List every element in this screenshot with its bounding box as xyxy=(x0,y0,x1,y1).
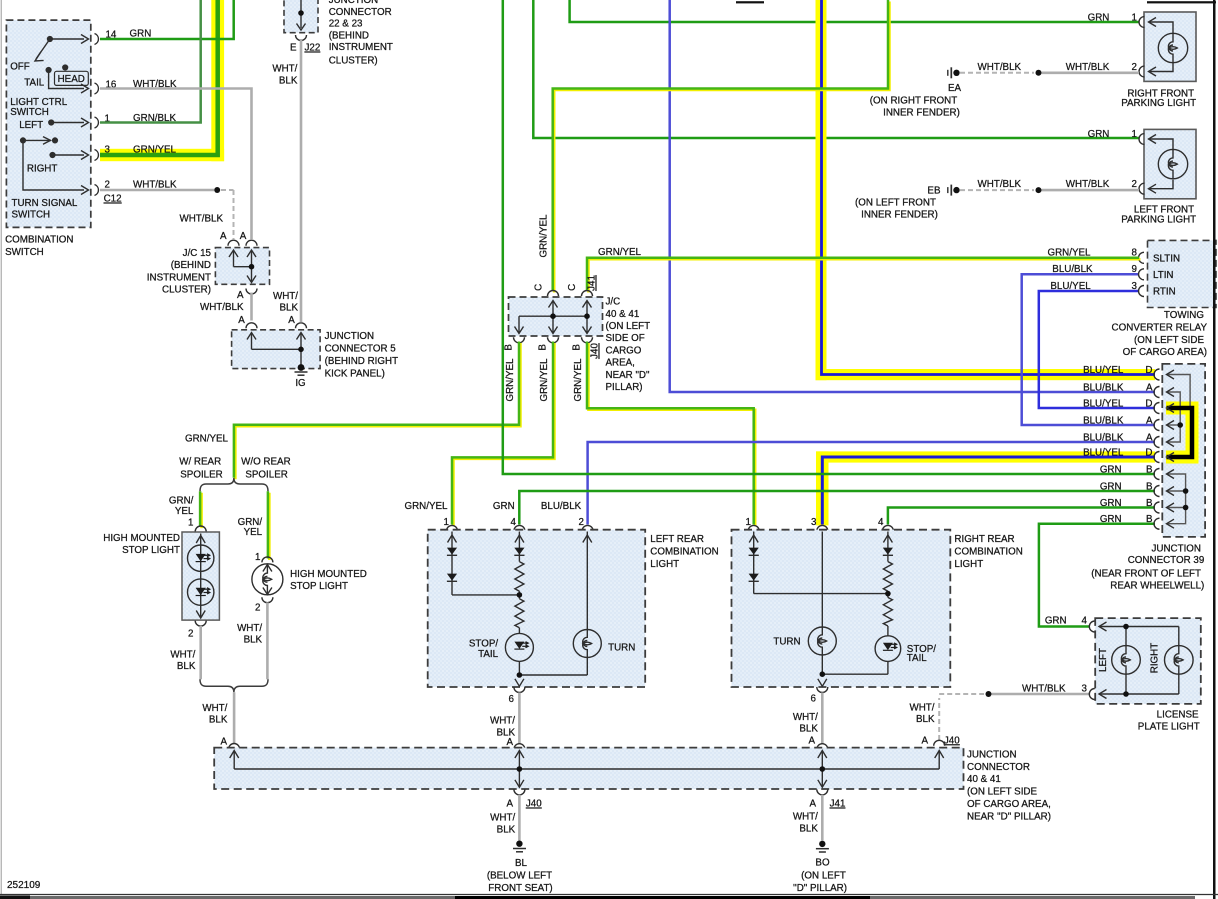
left stop light labels xyxy=(103,533,193,640)
svg-text:OF CARGO AREA): OF CARGO AREA) xyxy=(1123,347,1207,358)
svg-text:WHT/: WHT/ xyxy=(272,64,297,75)
svg-text:2: 2 xyxy=(1132,179,1137,190)
brace spoiler split xyxy=(200,478,268,491)
svg-text:JUNCTION: JUNCTION xyxy=(325,331,375,342)
JC39 bus A xyxy=(1167,392,1180,442)
wire WHT/BLK left stop light down xyxy=(199,626,202,680)
svg-text:A: A xyxy=(1146,433,1153,444)
svg-text:6: 6 xyxy=(509,694,515,705)
svg-text:GRN/YEL: GRN/YEL xyxy=(573,358,584,402)
svg-text:''D" PILLAR): ''D" PILLAR) xyxy=(793,883,847,894)
svg-text:LTIN: LTIN xyxy=(1153,270,1174,281)
svg-text:EA: EA xyxy=(948,83,962,94)
pin numbers and wire labels xyxy=(104,29,177,205)
wire WHT/BLK J/C15 to JC5 xyxy=(250,293,253,321)
svg-text:REAR WHEELWELL): REAR WHEELWELL) xyxy=(1110,581,1204,592)
J/C 40 & 41 pin letters xyxy=(504,275,601,359)
wire GRN from top to right front parking light xyxy=(570,0,1139,22)
svg-text:BLU/BLK: BLU/BLK xyxy=(1083,383,1124,394)
junction connector 39 xyxy=(1162,364,1205,537)
svg-text:RTIN: RTIN xyxy=(1153,286,1176,297)
right front parking light labels xyxy=(1066,12,1196,109)
wire GRN/YEL J40 pin B mid to left rear light pin 1 xyxy=(453,343,554,526)
svg-text:J/C: J/C xyxy=(606,297,621,308)
svg-text:A: A xyxy=(238,315,245,326)
yellow highlight BLU/YEL JC39 row6 to right rear pin 3 xyxy=(816,451,1155,462)
svg-text:A: A xyxy=(1146,383,1153,394)
svg-text:2: 2 xyxy=(255,603,260,614)
svg-text:OFF: OFF xyxy=(10,62,30,73)
turn signal switch contacts xyxy=(21,120,84,190)
svg-text:BLK: BLK xyxy=(916,714,935,725)
svg-text:WHT/BLK: WHT/BLK xyxy=(978,62,1022,73)
ground BL xyxy=(487,841,553,895)
ground EB xyxy=(855,185,960,221)
svg-text:WHT/: WHT/ xyxy=(273,291,298,302)
svg-text:B: B xyxy=(1146,482,1153,493)
svg-text:D: D xyxy=(1145,448,1152,459)
svg-text:CLUSTER): CLUSTER) xyxy=(329,56,378,67)
svg-text:3: 3 xyxy=(1132,281,1138,292)
ground IG xyxy=(295,364,308,389)
svg-text:A: A xyxy=(506,737,513,748)
svg-text:A: A xyxy=(809,799,816,810)
left rear pin 6 wire and labels xyxy=(490,693,525,750)
svg-text:GRN: GRN xyxy=(1100,498,1122,509)
svg-text:GRN/YEL: GRN/YEL xyxy=(539,214,550,258)
svg-text:JUNCTION: JUNCTION xyxy=(329,0,379,6)
wire GRN pin 14 xyxy=(100,0,234,39)
right rear light interior labels xyxy=(773,636,936,664)
svg-text:CONNECTOR: CONNECTOR xyxy=(329,7,392,18)
JC39 highlighted bus yellow band xyxy=(1166,408,1192,457)
page border right xyxy=(1213,0,1216,899)
svg-text:GRN: GRN xyxy=(493,501,515,512)
svg-text:BLK: BLK xyxy=(209,715,228,726)
svg-text:AREA,: AREA, xyxy=(606,358,635,369)
svg-text:BLU/YEL: BLU/YEL xyxy=(1083,448,1124,459)
bottom JC caption xyxy=(967,750,1051,823)
svg-text:GRN: GRN xyxy=(1100,514,1122,525)
yellow highlight GRN/YEL pin 3 xyxy=(100,0,224,161)
right front parking light xyxy=(1139,12,1196,81)
svg-text:B: B xyxy=(504,344,515,351)
svg-text:GRN: GRN xyxy=(1045,615,1067,626)
svg-text:W/ REAR: W/ REAR xyxy=(179,456,221,467)
wire BLU/YEL highlighted core to row1 xyxy=(822,0,1156,375)
label WHT/ BLK under J22 xyxy=(272,64,297,87)
svg-text:BLU/BLK: BLU/BLK xyxy=(1083,416,1124,427)
svg-text:BLU/YEL: BLU/YEL xyxy=(1083,365,1124,376)
junction connector 40 & 41 bottom xyxy=(214,748,963,795)
J/C 15 pin labels A A xyxy=(220,231,257,246)
svg-text:WHT/: WHT/ xyxy=(793,811,818,822)
brace stop light merge xyxy=(200,679,268,692)
svg-text:WHT/: WHT/ xyxy=(490,715,515,726)
svg-text:SWITCH: SWITCH xyxy=(5,247,44,258)
svg-text:LIGHT: LIGHT xyxy=(650,559,679,570)
svg-text:GRN/YEL: GRN/YEL xyxy=(539,358,550,402)
svg-text:BLK: BLK xyxy=(244,634,263,645)
bottom bar segments xyxy=(0,896,30,899)
JC39 pin arcs xyxy=(1154,369,1160,529)
svg-text:CONVERTER RELAY: CONVERTER RELAY xyxy=(1112,323,1208,334)
wire GRN right rear pin4 to JC39 row9 xyxy=(888,508,1155,525)
svg-text:GRN/YEL: GRN/YEL xyxy=(505,358,516,402)
svg-text:9: 9 xyxy=(1132,264,1137,275)
combination switch pin arcs xyxy=(95,34,99,196)
svg-text:GRN/YEL: GRN/YEL xyxy=(404,501,448,512)
combination switch box xyxy=(6,20,90,227)
JC39 pin arrows xyxy=(1167,370,1175,528)
svg-text:GRN: GRN xyxy=(1100,465,1122,476)
svg-text:BLU/BLK: BLU/BLK xyxy=(541,501,582,512)
yellow highlight BLU/YEL from top to JC39 row1 xyxy=(816,0,827,380)
svg-text:B: B xyxy=(538,344,549,351)
JC39 pin letters xyxy=(1145,365,1153,525)
svg-text:CONNECTOR: CONNECTOR xyxy=(967,762,1030,773)
wire WHT/BLK pin 16 xyxy=(100,89,252,240)
junction connector 5 xyxy=(232,330,321,369)
right rear pin 6 wire and labels xyxy=(793,693,828,750)
svg-text:1: 1 xyxy=(1132,12,1137,23)
svg-text:HIGH MOUNTED: HIGH MOUNTED xyxy=(290,569,367,580)
svg-text:GRN/YEL: GRN/YEL xyxy=(185,434,229,445)
wire WHT/BLK dashed license plate to J40 xyxy=(909,691,1090,746)
svg-text:TURN SIGNAL: TURN SIGNAL xyxy=(12,198,78,209)
JC39 bus B xyxy=(1167,474,1186,524)
svg-text:BLU/YEL: BLU/YEL xyxy=(1083,399,1124,410)
svg-text:WHT/: WHT/ xyxy=(237,623,262,634)
svg-text:TOWING: TOWING xyxy=(1164,310,1204,321)
high mounted stop light w/o rear spoiler xyxy=(252,557,283,603)
svg-text:LIGHT: LIGHT xyxy=(954,559,983,570)
JC39 highlighted black bus D xyxy=(1167,408,1193,457)
wire GRN/YEL to left stop light xyxy=(200,493,203,528)
svg-text:LICENSE: LICENSE xyxy=(1157,709,1199,720)
svg-text:WHT/: WHT/ xyxy=(202,703,227,714)
svg-text:GRN: GRN xyxy=(1088,129,1110,140)
svg-text:TAIL: TAIL xyxy=(478,649,499,660)
svg-text:D: D xyxy=(1145,399,1152,410)
svg-text:CONNECTOR 5: CONNECTOR 5 xyxy=(325,344,397,355)
svg-text:LEFT: LEFT xyxy=(19,120,43,131)
svg-text:C12: C12 xyxy=(104,194,122,205)
svg-text:J41: J41 xyxy=(587,275,598,291)
svg-text:CARGO: CARGO xyxy=(606,346,642,357)
wire GRN/YEL J41 pin C right to relay SLTIN xyxy=(588,259,1140,292)
GRN/YEL rotated labels below J/C 40 & 41 xyxy=(505,358,584,402)
svg-text:BLU/BLK: BLU/BLK xyxy=(1052,264,1093,275)
wire GRN left rear pin4 to JC39 row8 xyxy=(519,491,1155,525)
svg-text:A: A xyxy=(220,231,227,242)
wire WHT/BLK merged to bottom JC xyxy=(233,692,236,744)
svg-text:4: 4 xyxy=(878,517,884,528)
svg-text:(ON LEFT: (ON LEFT xyxy=(606,321,651,332)
right stop light labels xyxy=(255,569,367,614)
svg-text:WHT/BLK: WHT/BLK xyxy=(200,302,244,313)
svg-text:(ON LEFT FRONT: (ON LEFT FRONT xyxy=(855,198,936,209)
svg-text:J40: J40 xyxy=(526,799,542,810)
junction connector 22 & 23 caption xyxy=(329,0,393,67)
junction connector J/C 40 & 41 top xyxy=(509,291,603,343)
svg-text:WHT/BLK: WHT/BLK xyxy=(1022,683,1066,694)
JC39 bus D thin xyxy=(1167,375,1192,409)
svg-text:EB: EB xyxy=(927,185,941,196)
svg-text:COMBINATION: COMBINATION xyxy=(954,546,1022,557)
wire WHT/BLK EB to left front parking xyxy=(960,179,1139,193)
svg-text:(ON RIGHT FRONT: (ON RIGHT FRONT xyxy=(870,96,957,107)
svg-text:B: B xyxy=(572,344,583,351)
svg-text:J40: J40 xyxy=(590,343,601,359)
svg-text:LEFT: LEFT xyxy=(1098,648,1109,672)
wire WHT/BLK EA to right front parking xyxy=(960,62,1139,76)
license plate light pin labels xyxy=(1022,615,1088,694)
JC39 caption xyxy=(1091,544,1204,592)
right rear combination light pin labels xyxy=(746,517,885,528)
svg-text:A: A xyxy=(220,737,227,748)
svg-text:WHT/BLK: WHT/BLK xyxy=(978,179,1022,190)
high mounted stop light w/ rear spoiler xyxy=(182,526,219,626)
svg-text:B: B xyxy=(1146,465,1153,476)
wire GRN/YEL top loop to J41 pin C xyxy=(554,1,889,292)
svg-text:3: 3 xyxy=(1082,683,1088,694)
svg-text:YEL: YEL xyxy=(244,527,263,538)
svg-text:3: 3 xyxy=(811,517,817,528)
left rear light caption xyxy=(650,534,718,570)
ground EA xyxy=(870,67,962,118)
page border left xyxy=(0,0,2,894)
svg-text:TURN: TURN xyxy=(608,642,635,653)
svg-text:(NEAR FRONT OF LEFT: (NEAR FRONT OF LEFT xyxy=(1091,569,1201,580)
wire WHT/BLK pin 2 xyxy=(100,187,234,239)
light ctrl switch contacts xyxy=(35,37,88,89)
svg-text:WHT/BLK: WHT/BLK xyxy=(1066,62,1110,73)
svg-text:40 & 41: 40 & 41 xyxy=(967,774,1001,785)
svg-text:HEAD: HEAD xyxy=(58,74,85,85)
svg-text:WHT/: WHT/ xyxy=(793,712,818,723)
svg-text:(BEHIND RIGHT: (BEHIND RIGHT xyxy=(325,356,398,367)
svg-text:TURN: TURN xyxy=(773,636,800,647)
bottom JC pin labels below xyxy=(506,799,845,810)
svg-text:6: 6 xyxy=(811,693,817,704)
svg-text:C: C xyxy=(534,284,545,291)
wire WHT/BLK J22-E to JC5 xyxy=(300,39,303,323)
J/C 40 & 41 caption xyxy=(606,297,651,394)
svg-text:A: A xyxy=(1146,416,1153,427)
combination switch pin arrowheads xyxy=(81,35,89,195)
svg-text:NEAR "D": NEAR "D" xyxy=(606,370,650,381)
svg-text:B: B xyxy=(1146,514,1153,525)
svg-text:D: D xyxy=(1145,365,1152,376)
svg-text:J22: J22 xyxy=(305,43,321,54)
wire WHT/BLK J41 to BO ground xyxy=(793,795,822,841)
svg-text:(ON LEFT SIDE: (ON LEFT SIDE xyxy=(967,787,1038,798)
svg-text:WHT/: WHT/ xyxy=(490,813,515,824)
svg-text:WHT/: WHT/ xyxy=(170,650,195,661)
svg-text:B: B xyxy=(1146,498,1153,509)
svg-text:CONNECTOR 39: CONNECTOR 39 xyxy=(1128,555,1205,566)
svg-text:SLTIN: SLTIN xyxy=(1153,253,1180,264)
ground BO xyxy=(793,841,847,895)
svg-text:TAIL: TAIL xyxy=(907,653,928,664)
svg-text:SIDE OF: SIDE OF xyxy=(606,333,645,344)
license plate light caption xyxy=(1138,709,1200,732)
svg-text:BO: BO xyxy=(815,857,830,868)
top edge black segment right xyxy=(1147,1,1216,3)
svg-text:A: A xyxy=(240,231,247,242)
combination switch texts xyxy=(5,62,85,258)
svg-text:(ON LEFT: (ON LEFT xyxy=(801,870,846,881)
svg-text:PLATE LIGHT: PLATE LIGHT xyxy=(1138,721,1200,732)
left rear combination light pin labels xyxy=(404,501,584,528)
wire WHT/BLK right stop light down xyxy=(266,602,269,679)
svg-text:LEFT REAR: LEFT REAR xyxy=(650,534,704,545)
svg-text:A: A xyxy=(288,315,295,326)
svg-text:A: A xyxy=(506,799,513,810)
svg-text:1: 1 xyxy=(188,518,193,529)
svg-text:40 & 41: 40 & 41 xyxy=(606,309,640,320)
wire BLU/BLK relay LTIN to JC39 row4 xyxy=(1022,274,1155,425)
svg-text:3: 3 xyxy=(105,145,111,156)
wire GRN from top to JC39 row7 xyxy=(503,0,1155,474)
svg-text:4: 4 xyxy=(1082,615,1088,626)
svg-text:SPOILER: SPOILER xyxy=(245,470,287,481)
left front parking light xyxy=(1139,129,1196,198)
wire GRN JC39 row10 to license plate pin4 xyxy=(1039,524,1155,627)
wire WHT/BLK J40 to BL ground xyxy=(490,795,519,841)
left rear light interior labels xyxy=(469,639,635,660)
right rear combination light xyxy=(732,525,951,692)
svg-text:A: A xyxy=(808,735,815,746)
svg-text:BLK: BLK xyxy=(497,825,516,836)
svg-text:FRONT SEAT): FRONT SEAT) xyxy=(488,883,552,894)
svg-text:BLK: BLK xyxy=(279,76,298,87)
svg-text:2: 2 xyxy=(579,517,584,528)
bottom border line xyxy=(0,894,1218,896)
svg-text:22 & 23: 22 & 23 xyxy=(329,19,363,30)
svg-text:TAIL: TAIL xyxy=(24,78,45,89)
svg-text:RIGHT: RIGHT xyxy=(1150,643,1161,673)
svg-text:BLU/BLK: BLU/BLK xyxy=(1083,433,1124,444)
svg-text:2: 2 xyxy=(188,629,193,640)
svg-text:SWITCH: SWITCH xyxy=(10,107,49,118)
svg-text:PARKING LIGHT: PARKING LIGHT xyxy=(1121,214,1196,225)
svg-text:BLK: BLK xyxy=(799,723,818,734)
wire GRN/YEL to right stop light xyxy=(268,493,271,560)
svg-text:INNER FENDER): INNER FENDER) xyxy=(883,108,960,119)
svg-text:SPOILER: SPOILER xyxy=(180,470,222,481)
junction connector 22 & 23 box xyxy=(284,0,318,41)
svg-text:COMBINATION: COMBINATION xyxy=(650,546,718,557)
wire BLU/YEL highlighted row6 core xyxy=(822,457,1155,525)
towing converter relay xyxy=(1139,240,1217,307)
svg-text:GRN/YEL: GRN/YEL xyxy=(133,145,177,156)
svg-text:JUNCTION: JUNCTION xyxy=(1151,544,1201,555)
labels E J22 xyxy=(290,43,320,54)
svg-text:(BEHIND: (BEHIND xyxy=(329,31,369,42)
labels W/ REAR SPOILER, W/O REAR SPOILER xyxy=(179,456,290,480)
svg-text:(BEHIND: (BEHIND xyxy=(171,260,211,271)
svg-text:1: 1 xyxy=(255,552,260,563)
svg-text:1: 1 xyxy=(1132,129,1137,140)
svg-text:IG: IG xyxy=(295,378,305,389)
junction connector 5 caption xyxy=(325,331,398,379)
wire GRN/YEL J40 pin B left to spoiler split xyxy=(235,343,520,479)
svg-text:J/C 15: J/C 15 xyxy=(183,248,212,259)
svg-text:INSTRUMENT: INSTRUMENT xyxy=(329,42,393,53)
svg-text:HIGH MOUNTED: HIGH MOUNTED xyxy=(103,533,180,544)
svg-text:GRN: GRN xyxy=(1100,482,1122,493)
svg-text:COMBINATION: COMBINATION xyxy=(5,234,73,245)
svg-text:BLU/YEL: BLU/YEL xyxy=(1050,281,1091,292)
svg-text:RIGHT REAR: RIGHT REAR xyxy=(954,534,1014,545)
stop light branch labels xyxy=(169,496,263,564)
junction connector J/C 15 xyxy=(215,248,269,294)
svg-text:2: 2 xyxy=(1132,62,1137,73)
stop light WHT/BLK labels xyxy=(170,623,262,672)
relay caption xyxy=(1112,310,1208,358)
svg-text:STOP LIGHT: STOP LIGHT xyxy=(122,545,180,556)
svg-text:SWITCH: SWITCH xyxy=(12,210,51,221)
svg-text:BLK: BLK xyxy=(799,823,818,834)
svg-text:A: A xyxy=(237,290,244,301)
svg-text:WHT/BLK: WHT/BLK xyxy=(1066,179,1110,190)
top edge black segment center xyxy=(736,1,764,3)
svg-text:GRN/YEL: GRN/YEL xyxy=(598,247,642,258)
license plate light xyxy=(1089,618,1200,704)
svg-text:BL: BL xyxy=(515,858,528,869)
svg-text:OF CARGO AREA,: OF CARGO AREA, xyxy=(967,799,1051,810)
wire BLU/BLK left rear pin2 to JC39 row5 xyxy=(588,442,1155,525)
wire GRN/YEL pin 3 core xyxy=(100,0,218,155)
svg-text:NEAR ''D" PILLAR): NEAR ''D" PILLAR) xyxy=(967,812,1051,823)
svg-text:E: E xyxy=(290,43,297,54)
svg-text:CLUSTER): CLUSTER) xyxy=(162,285,211,296)
left front parking light labels xyxy=(1066,129,1196,225)
svg-text:C: C xyxy=(567,284,578,291)
svg-text:STOP LIGHT: STOP LIGHT xyxy=(290,581,348,592)
wire BLU/BLK from top to JC39 row2 xyxy=(670,0,1155,392)
svg-text:BLK: BLK xyxy=(177,661,196,672)
svg-text:J41: J41 xyxy=(830,799,846,810)
svg-text:RIGHT: RIGHT xyxy=(27,164,57,175)
wire GRN/YEL J40 pin B right to right rear light pin 1 xyxy=(588,343,755,526)
svg-text:W/O REAR: W/O REAR xyxy=(241,456,291,467)
svg-text:PILLAR): PILLAR) xyxy=(606,382,643,393)
svg-text:YEL: YEL xyxy=(175,506,194,517)
J/C 15 caption xyxy=(147,248,212,296)
label WHT/ BLK right col xyxy=(273,291,298,314)
JC39 wire labels xyxy=(1083,365,1124,525)
wire BLU/YEL relay RTIN to JC39 row3 xyxy=(1039,291,1155,408)
wire GRN from top to left front parking light xyxy=(533,0,1139,138)
svg-text:(BELOW LEFT: (BELOW LEFT xyxy=(487,870,552,881)
svg-text:A: A xyxy=(921,735,928,746)
junction connector 5 pin labels xyxy=(238,315,306,329)
svg-text:KICK PANEL): KICK PANEL) xyxy=(325,368,385,379)
svg-text:GRN: GRN xyxy=(1088,12,1110,23)
label A + arc at bottom JC left pin xyxy=(220,737,239,750)
svg-text:252109: 252109 xyxy=(7,880,41,891)
svg-text:(ON LEFT SIDE: (ON LEFT SIDE xyxy=(1134,335,1205,346)
svg-text:WHT/BLK: WHT/BLK xyxy=(179,214,223,225)
left rear combination light xyxy=(428,525,646,692)
svg-text:INNER FENDER): INNER FENDER) xyxy=(861,210,938,221)
label WHT/ BLK merged xyxy=(202,703,227,726)
svg-text:J40: J40 xyxy=(944,735,960,746)
svg-text:INSTRUMENT: INSTRUMENT xyxy=(147,272,211,283)
